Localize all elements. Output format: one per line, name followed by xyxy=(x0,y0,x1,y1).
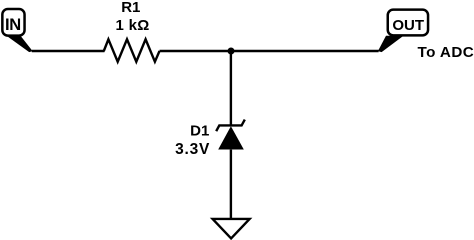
svg-text:D1: D1 xyxy=(190,122,209,139)
wire IN to resistor xyxy=(32,50,105,52)
svg-text:To ADC: To ADC xyxy=(418,44,474,61)
svg-text:3.3V: 3.3V xyxy=(175,141,210,158)
wire node to diode xyxy=(230,51,232,127)
ground xyxy=(213,219,250,239)
svg-text:IN: IN xyxy=(5,16,21,34)
resistor R1 xyxy=(104,39,160,61)
zener diode D1 xyxy=(216,120,245,150)
node junction dot xyxy=(228,48,235,55)
svg-text:OUT: OUT xyxy=(392,17,424,34)
wire resistor to OUT xyxy=(160,50,379,52)
svg-text:R1: R1 xyxy=(121,0,140,16)
svg-text:1 kΩ: 1 kΩ xyxy=(116,17,150,34)
terminal OUT xyxy=(378,10,428,52)
terminal IN xyxy=(2,9,32,52)
wire diode to ground xyxy=(230,150,232,219)
